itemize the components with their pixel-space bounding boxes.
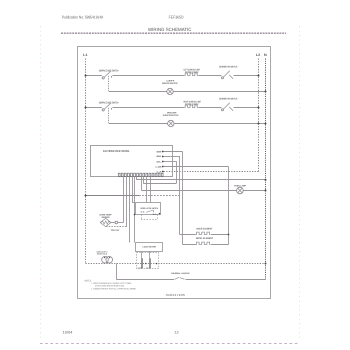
svg-text:FEF365D: FEF365D: [169, 14, 184, 19]
svg-text:SURFACE UNIT SWITCH: SURFACE UNIT SWITCH: [99, 102, 119, 105]
svg-text:BROIL ELEMENT: BROIL ELEMENT: [196, 237, 213, 240]
svg-text:TOD CUT: TOD CUT: [111, 229, 121, 232]
svg-text:N.O.: N.O.: [146, 266, 151, 269]
svg-text:BAKE ELEMENT: BAKE ELEMENT: [197, 227, 213, 230]
svg-text:BURNER ON SWITCH: BURNER ON SWITCH: [219, 98, 237, 101]
svg-text:10/04: 10/04: [63, 330, 73, 334]
svg-text:DOOR CLOSED AND DOOR UNLOCKED: DOOR CLOSED AND DOOR UNLOCKED: [95, 285, 124, 288]
svg-text:Publication No: 5995419149: Publication No: 5995419149: [62, 14, 104, 19]
svg-text:SURFACE UNIT SWITCH: SURFACE UNIT SWITCH: [99, 70, 119, 73]
svg-text:SURFACE INDICATOR: SURFACE INDICATOR: [163, 114, 179, 117]
svg-text:COM: COM: [138, 266, 143, 269]
svg-text:LOCK MOTOR: LOCK MOTOR: [143, 245, 157, 248]
svg-text:SURFACE INDICATOR: SURFACE INDICATOR: [162, 82, 178, 85]
svg-text:L2: L2: [256, 53, 261, 57]
svg-text:THERMAL LIMITER: THERMAL LIMITER: [171, 272, 190, 275]
svg-text:316417105: 316417105: [166, 293, 186, 297]
svg-text:N.O.: N.O.: [141, 211, 146, 214]
svg-text:2. CONNECTORS NOT IN OF ALL CO: 2. CONNECTORS NOT IN OF ALL COPPER AS AL…: [91, 287, 136, 290]
svg-text:DOOR LATCH SWITCH: DOOR LATCH SWITCH: [141, 207, 159, 210]
svg-text:12: 12: [174, 330, 178, 334]
svg-text:OVEN TEMP: OVEN TEMP: [100, 213, 112, 216]
svg-text:SENSOR: SENSOR: [102, 216, 110, 219]
svg-text:LEFT: LEFT: [167, 79, 176, 82]
svg-text:OVEN LAMP: OVEN LAMP: [234, 184, 246, 187]
svg-text:2100W @240V: 2100W @240V: [185, 103, 199, 106]
svg-text:RIGHT: RIGHT: [167, 111, 177, 114]
svg-text:L1: L1: [83, 53, 88, 57]
svg-text:N.C.: N.C.: [153, 213, 158, 216]
svg-text:WIRING SCHEMATIC: WIRING SCHEMATIC: [148, 27, 192, 32]
svg-text:NOTES:: NOTES:: [85, 279, 92, 282]
svg-text:BURNER ON SWITCH: BURNER ON SWITCH: [219, 66, 237, 69]
svg-text:2100W @240V: 2100W @240V: [185, 71, 199, 74]
svg-text:RECEPTACLE: RECEPTACLE: [97, 253, 108, 256]
svg-text:L1B: L1B: [156, 166, 163, 169]
svg-text:ELECTRONIC OVEN CONTROL: ELECTRONIC OVEN CONTROL: [103, 149, 130, 153]
